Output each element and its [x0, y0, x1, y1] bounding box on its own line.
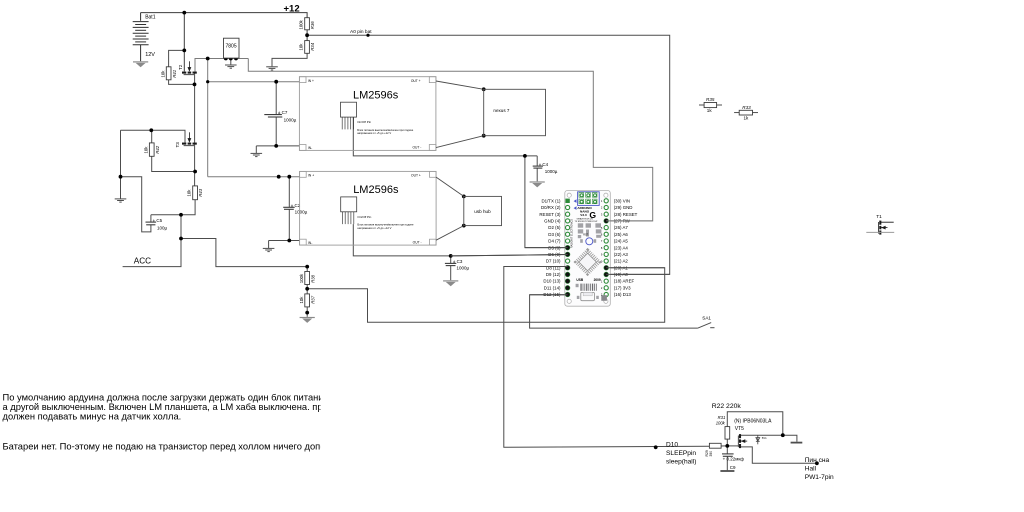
- svg-text:D7 (10): D7 (10): [546, 259, 561, 264]
- svg-text:(24) A5: (24) A5: [614, 239, 629, 244]
- svg-text:(17) 3V3: (17) 3V3: [614, 285, 631, 290]
- svg-text:SLEEPpin: SLEEPpin: [666, 450, 696, 457]
- svg-text:Пин сна: Пин сна: [805, 457, 830, 464]
- svg-text:± C5: ± C5: [153, 218, 163, 223]
- svg-text:V3.0: V3.0: [580, 213, 587, 217]
- svg-text:10k: 10k: [160, 70, 165, 78]
- svg-text:100µ: 100µ: [157, 226, 168, 231]
- svg-text:GND (4): GND (4): [544, 219, 561, 224]
- svg-text:SA1: SA1: [702, 316, 711, 321]
- svg-text:R36: R36: [310, 21, 315, 29]
- svg-text:± C3: ± C3: [453, 259, 463, 264]
- svg-text:а другой выключенным. Включен: а другой выключенным. Включен LM планшет…: [3, 402, 369, 412]
- svg-text:ACC: ACC: [134, 257, 151, 266]
- svg-text:100k: 100k: [716, 420, 726, 425]
- svg-text:RADIOKIT ELECTRONICS: RADIOKIT ELECTRONICS: [571, 219, 574, 248]
- svg-text:(26) A7: (26) A7: [614, 225, 629, 230]
- svg-text:(29) GND: (29) GND: [614, 205, 633, 210]
- svg-text:5V1: 5V1: [762, 436, 767, 440]
- svg-text:VT5: VT5: [735, 426, 744, 432]
- svg-text:usb hub: usb hub: [474, 209, 491, 214]
- svg-text:(28) RESET: (28) RESET: [614, 212, 638, 217]
- svg-text:10k: 10k: [299, 43, 304, 51]
- svg-text:(30) VIN: (30) VIN: [614, 198, 630, 203]
- svg-text:PW1-7pin: PW1-7pin: [805, 474, 834, 481]
- svg-text:12V: 12V: [145, 52, 155, 58]
- svg-text:D4 (7): D4 (7): [548, 239, 561, 244]
- svg-text:7805: 7805: [226, 44, 237, 50]
- svg-text:R42: R42: [155, 145, 160, 153]
- svg-text:(23) A4: (23) A4: [614, 245, 629, 250]
- svg-text:1000µ: 1000µ: [457, 265, 470, 270]
- svg-text:D10: D10: [666, 442, 678, 449]
- svg-text:R38: R38: [310, 274, 315, 282]
- svg-text:R33: R33: [742, 105, 751, 110]
- svg-text:D11 (14): D11 (14): [544, 285, 561, 290]
- svg-text:(16) D13: (16) D13: [614, 292, 632, 297]
- svg-text:1000µ: 1000µ: [295, 210, 308, 215]
- svg-text:Батареи нет. По-этому не подаю: Батареи нет. По-этому не подаю на транзи…: [3, 441, 361, 451]
- svg-text:По умолчанию ардуина должна по: По умолчанию ардуина должна после загруз…: [3, 392, 363, 402]
- svg-text:A0 pin bat: A0 pin bat: [350, 29, 372, 35]
- svg-text:D2 (5): D2 (5): [548, 225, 561, 230]
- svg-text:1k: 1k: [707, 108, 713, 113]
- svg-text:должен подавать минус на датчи: должен подавать минус на датчик холла.: [3, 412, 182, 422]
- svg-text:(21) A2: (21) A2: [614, 259, 629, 264]
- svg-text:RST: RST: [583, 234, 588, 237]
- svg-text:2009: 2009: [594, 278, 601, 282]
- svg-text:R34: R34: [310, 42, 315, 50]
- svg-text:nexus 7: nexus 7: [493, 108, 510, 113]
- svg-text:D1/TX (1): D1/TX (1): [541, 198, 561, 203]
- svg-text:RESET (3): RESET (3): [539, 212, 561, 217]
- svg-text:(18) AREF: (18) AREF: [614, 279, 635, 284]
- svg-text:D9 (12): D9 (12): [546, 272, 561, 277]
- svg-text:D0/RX (2): D0/RX (2): [541, 205, 561, 210]
- svg-text:GRAVITECH.US: GRAVITECH.US: [577, 218, 594, 221]
- svg-text:+12: +12: [284, 4, 300, 15]
- svg-text:± C4: ± C4: [539, 162, 549, 167]
- svg-text:(25) A6: (25) A6: [614, 232, 629, 237]
- svg-text:R37: R37: [310, 295, 315, 303]
- svg-text:+ 0.22мкф: + 0.22мкф: [723, 457, 745, 462]
- svg-text:(N) IPB06N03LA: (N) IPB06N03LA: [734, 418, 772, 424]
- svg-text:T3: T3: [175, 142, 180, 148]
- svg-text:1000µ: 1000µ: [545, 169, 558, 174]
- svg-text:390: 390: [709, 451, 713, 457]
- svg-text:± C7: ± C7: [278, 110, 288, 115]
- svg-text:C9: C9: [730, 465, 736, 470]
- svg-text:1000µ: 1000µ: [284, 118, 297, 123]
- svg-text:R29: R29: [705, 450, 709, 456]
- svg-text:R35: R35: [706, 97, 715, 102]
- svg-text:(22) A3: (22) A3: [614, 252, 629, 257]
- svg-text:T1: T1: [876, 214, 882, 220]
- svg-text:R43: R43: [198, 188, 203, 196]
- svg-text:D3 (6): D3 (6): [548, 232, 561, 237]
- svg-text:USB: USB: [576, 278, 583, 282]
- svg-text:TX RX RST PWR ICSP: TX RX RST PWR ICSP: [575, 221, 598, 223]
- svg-text:10k: 10k: [187, 189, 192, 197]
- svg-text:sleep(hall): sleep(hall): [666, 458, 696, 465]
- svg-text:R41: R41: [172, 69, 177, 77]
- svg-text:Hall: Hall: [805, 466, 817, 473]
- svg-text:10k: 10k: [299, 296, 304, 304]
- svg-text:10k: 10k: [143, 146, 148, 154]
- svg-text:T2: T2: [178, 64, 183, 70]
- svg-text:100k: 100k: [299, 19, 304, 29]
- svg-text:100k: 100k: [299, 273, 304, 283]
- svg-text:1k: 1k: [744, 116, 750, 121]
- svg-text:Bat1: Bat1: [145, 14, 156, 20]
- svg-text:R22 220k: R22 220k: [712, 403, 742, 410]
- svg-text:D10 (13): D10 (13): [543, 279, 561, 284]
